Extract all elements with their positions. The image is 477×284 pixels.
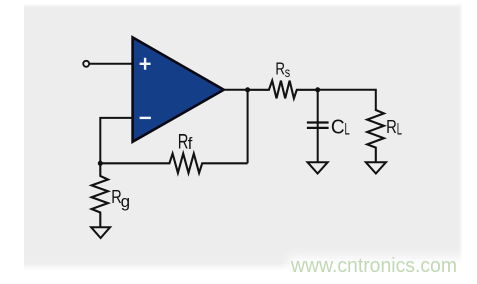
resistor RL [367, 110, 384, 163]
node: output [245, 87, 250, 92]
schematic background panel [24, 4, 462, 8]
svg-text:g: g [121, 192, 130, 211]
ground (RL) [366, 162, 386, 173]
op-amp U1 [133, 37, 224, 141]
label Rf [178, 129, 193, 153]
label CL [331, 116, 350, 139]
label RL [386, 116, 402, 138]
resistor Rg [92, 163, 108, 227]
wire: inverting input [100, 118, 134, 163]
svg-text:f: f [188, 135, 193, 153]
input terminal [83, 61, 89, 67]
svg-text:R: R [386, 116, 397, 137]
node: load [315, 87, 320, 92]
wire: feedback vertical [247, 90, 249, 164]
ground (CL) [308, 162, 328, 173]
label Rs [275, 60, 290, 80]
svg-text:R: R [275, 60, 285, 79]
ground (Rg) [91, 227, 110, 238]
resistor Rf [100, 154, 247, 173]
wire: op-amp output [223, 89, 250, 91]
node: inverting junction [98, 161, 103, 166]
svg-text:C: C [331, 116, 345, 139]
label Rg [111, 186, 130, 211]
wire: load node to RL [318, 90, 376, 110]
resistor Rs [248, 81, 318, 99]
wire: input to op-amp + [90, 63, 134, 65]
svg-text:L: L [397, 120, 403, 139]
capacitor CL [307, 90, 329, 162]
svg-text:www.cntronics.com: www.cntronics.com [290, 255, 457, 277]
watermark background [288, 257, 477, 284]
svg-text:s: s [285, 65, 290, 81]
svg-text:L: L [345, 120, 350, 138]
